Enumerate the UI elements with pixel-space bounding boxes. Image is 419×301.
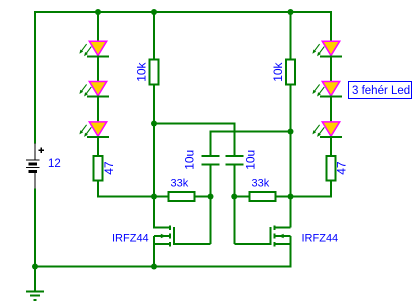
wire LED D2 cathode to LED D3 anode — [97, 97, 99, 123]
wire node D to transistor Q2 gate — [233, 197, 235, 245]
wire top rail to LED D1 anode — [97, 11, 99, 42]
capacitor C2 10u — [225, 155, 243, 157]
svg-text:47: 47 — [102, 161, 116, 175]
label annotation 3 feher Led box — [349, 82, 412, 99]
wire LED D1 cathode to LED D2 anode — [97, 56, 99, 82]
wire capacitor C2 bottom to node D — [233, 166, 235, 197]
wire resistor R2 to node B — [290, 85, 292, 132]
node A junction — [151, 121, 157, 127]
wire node B down to node F — [290, 132, 292, 197]
wire node A down to node E — [153, 124, 155, 197]
svg-text:IRFZ44: IRFZ44 — [112, 232, 149, 244]
wire resistor R4 to node C — [195, 196, 211, 198]
wire capacitor C1 bottom to node C — [210, 166, 212, 197]
wire resistor R3 to node E — [97, 181, 99, 197]
ground symbol — [34, 267, 36, 292]
wire resistor R1 to node A — [153, 85, 155, 124]
transistor Q1 IRFZ44 — [169, 225, 171, 230]
resistor R2 10k — [286, 60, 295, 85]
LED D6 — [322, 122, 339, 136]
wire transistor Q2 source to ground rail — [290, 236, 292, 268]
node top-right rail junction — [288, 9, 294, 15]
wire resistor R5 to node F — [276, 196, 291, 198]
resistor R6 47 — [327, 156, 336, 181]
wire node D to resistor R5 — [234, 196, 249, 198]
svg-text:12: 12 — [48, 158, 61, 170]
wire battery negative lead — [34, 189, 36, 267]
resistor R1 10k — [150, 60, 159, 85]
wire top rail right corner to LED D4 anode — [330, 11, 332, 42]
node battery ground junction — [32, 264, 38, 270]
wire node E to transistor Q1 drain — [153, 197, 155, 228]
svg-text:33k: 33k — [252, 178, 270, 190]
LED D5 — [322, 82, 339, 96]
LED D4 — [322, 41, 339, 55]
wire battery positive lead — [34, 11, 36, 144]
transistor Q2 IRFZ44 — [273, 225, 275, 230]
wire node B to capacitor C1 top — [211, 131, 291, 133]
wire node A to capacitor C2 top — [154, 123, 234, 125]
svg-text:3 fehér Led: 3 fehér Led — [352, 85, 410, 97]
resistor R5 33k — [250, 192, 276, 201]
wire transistor Q1 gate to node C — [174, 243, 210, 245]
LED D3 — [89, 122, 106, 136]
LED D1 — [89, 41, 106, 55]
wire LED D3 cathode to resistor R3 — [97, 137, 99, 157]
node B junction — [288, 129, 294, 135]
resistor R3 47 — [94, 156, 103, 181]
capacitor C1 10u — [202, 155, 220, 157]
LED D2 — [89, 82, 106, 96]
wire transistor Q2 drain to node F — [276, 227, 291, 229]
node E junction — [151, 194, 157, 200]
wire LED D5 cathode to LED D6 anode — [330, 97, 332, 123]
resistor R4 33k — [169, 192, 195, 201]
svg-text:10u: 10u — [244, 150, 258, 170]
node D junction — [231, 194, 237, 200]
svg-text:IRFZ44: IRFZ44 — [302, 232, 339, 244]
node C junction — [208, 194, 214, 200]
svg-text:10u: 10u — [183, 150, 197, 170]
svg-text:33k: 33k — [171, 178, 189, 190]
svg-text:10k: 10k — [271, 61, 285, 81]
wire resistor R6 to node F — [330, 181, 332, 197]
wire top rail to resistor R2 — [290, 11, 292, 60]
svg-text:10k: 10k — [135, 61, 149, 81]
battery B1 12V — [34, 143, 36, 160]
svg-text:47: 47 — [335, 161, 349, 175]
wire top rail to resistor R1 — [153, 11, 155, 60]
node F junction — [288, 194, 294, 200]
wire node E to resistor R4 — [154, 196, 169, 198]
wire LED D6 cathode to resistor R6 — [330, 137, 332, 157]
node top rail LED branch junction — [95, 9, 101, 15]
wire transistor Q1 source to ground rail — [153, 236, 155, 267]
wire LED D4 cathode to LED D5 anode — [330, 56, 332, 82]
node top rail R1 branch junction — [151, 9, 157, 15]
node Q1 source ground junction — [151, 264, 157, 270]
wire ground rail — [34, 266, 291, 268]
wire top rail — [35, 11, 331, 13]
